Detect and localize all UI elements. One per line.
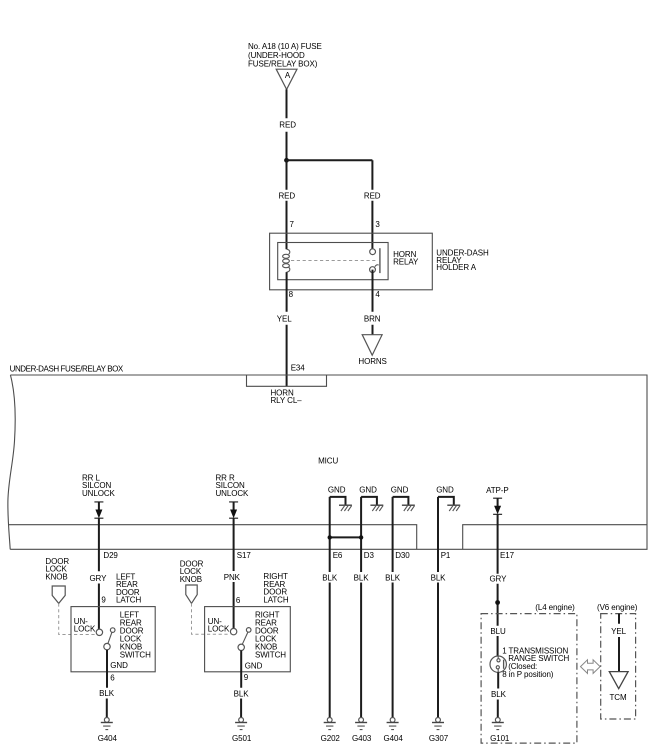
label UNDER-DASH RELAY HOLDER A	[436, 248, 489, 272]
micu ground GND D3	[359, 486, 383, 511]
left rear door lock knob switch box	[71, 607, 155, 672]
door lock knob symbol left	[52, 586, 65, 603]
ground G202	[321, 718, 341, 744]
relay contact hook	[375, 265, 379, 267]
ground G404 mid	[384, 718, 404, 744]
wire relay pin 8 to E34	[286, 272, 288, 386]
svg-text:3: 3	[375, 220, 380, 229]
horns arrow triangle	[362, 335, 382, 356]
switch blade pivot left	[110, 628, 115, 633]
dashed actuation left	[59, 603, 96, 634]
svg-text:GND: GND	[391, 486, 409, 495]
wire switch to G101	[497, 672, 499, 717]
door lock knob symbol right	[186, 585, 197, 603]
svg-text:6: 6	[236, 596, 241, 605]
switch blade right	[242, 632, 248, 644]
svg-text:D29: D29	[103, 551, 118, 560]
label RIGHT REAR DOOR LATCH	[263, 572, 288, 604]
junction node E17	[495, 600, 500, 605]
ground G101	[490, 718, 510, 744]
svg-text:RLY CL–: RLY CL–	[271, 396, 303, 405]
svg-text:SWITCH: SWITCH	[120, 650, 151, 659]
V6 engine dashed box	[601, 614, 636, 719]
relay contact bottom pin 4	[370, 267, 376, 273]
svg-text:G202: G202	[321, 734, 341, 743]
svg-text:BLK: BLK	[354, 573, 370, 582]
wire branch horizontal	[287, 159, 373, 161]
ground G403	[352, 718, 372, 744]
svg-text:GRY: GRY	[89, 574, 107, 583]
wire D30	[392, 497, 394, 572]
relay contact top pin 3	[370, 249, 376, 255]
label transmission range switch	[502, 646, 569, 678]
svg-text:TCM: TCM	[609, 693, 626, 702]
svg-text:G307: G307	[429, 734, 449, 743]
relay holder outer box	[270, 233, 433, 290]
under-dash fuse/relay box outline	[8, 375, 647, 549]
wire to relay pin 3	[371, 160, 373, 249]
wire D30 below box	[392, 572, 394, 718]
svg-text:UNLOCK: UNLOCK	[216, 489, 250, 498]
svg-text:9: 9	[244, 673, 249, 682]
junction node	[284, 158, 289, 163]
micu ground GND D30	[391, 486, 415, 511]
junction bar E6-D3	[328, 535, 364, 539]
wire S17 to switch	[233, 518, 235, 628]
switch contact right output	[238, 644, 244, 650]
wire relay pin 4 to horns	[372, 270, 374, 335]
svg-text:RED: RED	[364, 192, 381, 201]
svg-text:G404: G404	[98, 734, 118, 743]
tcm arrow triangle	[609, 672, 628, 689]
svg-text:ATP-P: ATP-P	[486, 486, 508, 495]
wire E17 to L4 box	[497, 514, 499, 656]
svg-text:7: 7	[290, 220, 295, 229]
micu ground GND P1	[436, 486, 460, 511]
svg-text:BLK: BLK	[322, 573, 338, 582]
svg-text:No. A18 (10 A) FUSE: No. A18 (10 A) FUSE	[248, 42, 322, 51]
wire left switch to ground	[106, 650, 108, 718]
svg-text:D3: D3	[364, 551, 375, 560]
svg-text:MICU: MICU	[318, 457, 338, 466]
svg-text:(L4 engine): (L4 engine)	[535, 603, 575, 612]
svg-text:BLU: BLU	[490, 627, 506, 636]
label DOOR LOCK KNOB left	[45, 557, 69, 582]
label RR R SILCON UNLOCK	[216, 473, 250, 498]
svg-text:HORNS: HORNS	[358, 357, 386, 366]
label HORN RLY CL	[271, 388, 303, 405]
svg-text:RED: RED	[279, 121, 296, 130]
svg-text:BRN: BRN	[364, 315, 381, 324]
svg-text:8: 8	[289, 290, 294, 299]
svg-text:RELAY: RELAY	[393, 257, 419, 266]
svg-text:RED: RED	[279, 192, 296, 201]
svg-text:BLK: BLK	[99, 689, 115, 698]
svg-text:KNOB: KNOB	[180, 575, 202, 584]
micu output arrow S17	[229, 502, 238, 518]
ground G501	[232, 718, 252, 744]
transmission range switch circle	[490, 656, 506, 672]
svg-text:6: 6	[110, 674, 115, 683]
label LEFT REAR DOOR LATCH	[116, 572, 141, 604]
dashed actuation right	[192, 603, 231, 634]
label left switch	[120, 610, 151, 659]
svg-text:LATCH: LATCH	[263, 595, 288, 604]
switch contact left input	[96, 629, 102, 635]
svg-text:BLK: BLK	[234, 690, 250, 699]
switch blade left	[108, 632, 112, 643]
svg-text:8 in P position): 8 in P position)	[502, 670, 554, 679]
wire P1	[437, 497, 439, 572]
label RR L SILCON UNLOCK	[82, 473, 116, 498]
svg-text:S17: S17	[237, 551, 252, 560]
svg-text:LATCH: LATCH	[116, 596, 141, 605]
fuse A connector triangle	[276, 69, 297, 89]
L4 engine dashed box	[481, 614, 577, 744]
ground G404 left	[98, 718, 118, 744]
svg-text:GND: GND	[359, 486, 377, 495]
svg-text:FUSE/RELAY BOX): FUSE/RELAY BOX)	[248, 60, 318, 69]
svg-text:HOLDER A: HOLDER A	[436, 263, 476, 272]
svg-text:GND: GND	[245, 661, 263, 670]
svg-text:BLK: BLK	[491, 690, 507, 699]
wire D3 below box	[360, 572, 362, 718]
micu ground GND E6	[328, 486, 352, 511]
label HORN RELAY	[393, 250, 419, 266]
svg-text:GRY: GRY	[489, 575, 507, 584]
wire P1 below box	[437, 572, 439, 718]
svg-text:E6: E6	[333, 551, 343, 560]
svg-text:E34: E34	[291, 363, 306, 372]
svg-text:KNOB: KNOB	[45, 572, 67, 581]
micu output arrow D29	[94, 502, 103, 518]
right rear door lock knob switch box	[205, 607, 291, 672]
wire D29 to switch	[98, 518, 100, 629]
micu inner bottom line	[8, 525, 647, 550]
relay actuation dashed line	[291, 260, 376, 262]
label UN-LOCK left	[74, 617, 96, 634]
wire to relay pin 7	[286, 160, 288, 249]
svg-text:GND: GND	[110, 661, 128, 670]
switch contact right input	[230, 628, 236, 634]
svg-text:YEL: YEL	[277, 315, 292, 324]
svg-text:LOCK: LOCK	[74, 625, 96, 634]
connector E34 notch	[247, 375, 327, 386]
svg-text:UNDER-DASH FUSE/RELAY BOX: UNDER-DASH FUSE/RELAY BOX	[10, 364, 124, 373]
wire D3	[360, 497, 362, 572]
horn relay inner box	[278, 243, 388, 280]
svg-text:YEL: YEL	[611, 627, 626, 636]
svg-text:4: 4	[375, 290, 380, 299]
switch contact left output	[104, 643, 110, 649]
svg-text:G501: G501	[232, 734, 252, 743]
svg-text:UNLOCK: UNLOCK	[82, 489, 116, 498]
label right switch	[255, 610, 286, 659]
switch blade pivot right	[246, 628, 251, 633]
svg-text:D30: D30	[395, 551, 410, 560]
label DOOR LOCK KNOB right	[180, 559, 204, 584]
svg-text:9: 9	[101, 596, 106, 605]
svg-text:BLK: BLK	[385, 573, 401, 582]
svg-text:SWITCH: SWITCH	[255, 650, 286, 659]
svg-text:GND: GND	[328, 486, 346, 495]
relay contact bar	[379, 248, 381, 273]
svg-text:E17: E17	[500, 551, 515, 560]
relay coil	[283, 249, 290, 272]
svg-text:A: A	[285, 71, 291, 80]
svg-text:P1: P1	[441, 551, 451, 560]
wire E6	[329, 497, 331, 572]
fuse No. A18 label	[248, 42, 322, 69]
svg-text:G404: G404	[384, 734, 404, 743]
micu output arrow E17	[493, 498, 502, 514]
wire E6 below box	[329, 572, 331, 718]
wire right switch to ground	[240, 651, 242, 718]
svg-text:(V6 engine): (V6 engine)	[597, 603, 638, 612]
equivalence double arrow	[581, 660, 601, 674]
svg-text:(UNDER-HOOD: (UNDER-HOOD	[248, 51, 305, 60]
wire fuse to junction	[286, 89, 288, 160]
svg-text:LOCK: LOCK	[208, 625, 230, 634]
svg-text:G403: G403	[352, 734, 372, 743]
svg-text:GND: GND	[436, 486, 454, 495]
ground G307	[429, 718, 449, 744]
label UN-LOCK right	[208, 617, 230, 634]
svg-text:PNK: PNK	[224, 573, 241, 582]
wire V6 YEL	[618, 614, 620, 672]
svg-text:G101: G101	[490, 734, 510, 743]
svg-text:BLK: BLK	[431, 573, 447, 582]
